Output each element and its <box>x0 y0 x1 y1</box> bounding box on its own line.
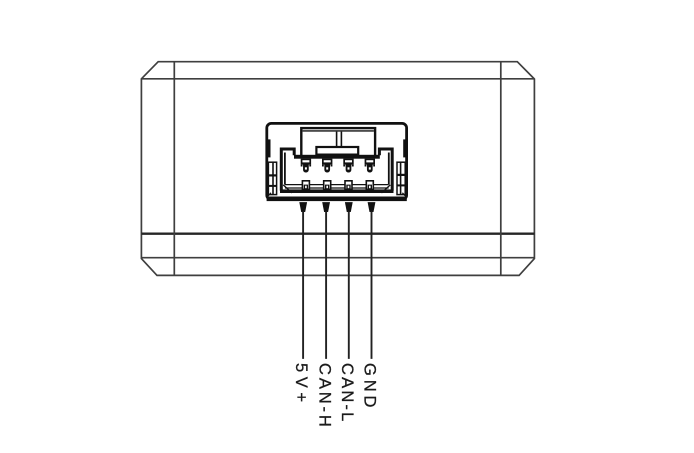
shroud bottom band <box>280 189 394 193</box>
latch center divider lines <box>337 132 342 148</box>
connector latch tab <box>301 128 375 157</box>
body lower thin panel line <box>141 257 534 259</box>
shroud bottom right corner diagonal <box>382 185 391 193</box>
connector shell bottom inner line <box>267 197 407 202</box>
body left vertical line <box>173 62 175 276</box>
pin 3 solder arrow <box>345 202 353 212</box>
pin 1 contact tooth <box>301 159 311 173</box>
pin 4 contact tooth <box>365 159 375 173</box>
shroud floor second line <box>285 187 389 189</box>
shroud right wall <box>379 149 392 191</box>
left mounting flange <box>268 162 276 194</box>
connector J1 outer shell <box>267 123 407 199</box>
leader line pin 1 <box>302 212 304 359</box>
svg-text:GND: GND <box>360 363 378 411</box>
body top panel line <box>141 78 534 80</box>
leader line pin 2 <box>325 212 327 359</box>
shroud bottom left corner diagonal <box>283 185 292 193</box>
leader line pin 4 <box>371 212 373 359</box>
svg-text:CAN-L: CAN-L <box>338 363 356 424</box>
right mounting flange <box>397 162 405 194</box>
pin 1 base contact <box>302 181 309 190</box>
shroud right wall inner edge <box>388 153 390 185</box>
svg-text:CAN-H: CAN-H <box>316 363 334 430</box>
connector shell right wall notch <box>403 139 406 157</box>
shroud left wall <box>281 149 294 191</box>
connector deck band <box>294 155 380 159</box>
pin 1 solder arrow <box>299 202 307 212</box>
pin 3 contact tooth <box>343 159 353 173</box>
svg-text:5V+: 5V+ <box>292 363 310 407</box>
shroud cavity floor line <box>285 184 389 186</box>
shell bottom-left corner diagonal <box>267 193 271 197</box>
shroud left wall inner edge <box>284 153 286 185</box>
connector shell left wall notch <box>268 139 271 157</box>
latch tab inner line <box>303 130 374 132</box>
body lower thick panel line <box>141 232 534 234</box>
pin 2 solder arrow <box>322 202 330 212</box>
pin 2 base contact <box>324 181 331 190</box>
connector key bar <box>316 147 358 155</box>
pin 3 base contact <box>345 181 352 190</box>
leader line pin 3 <box>348 212 350 359</box>
pin 4 base contact <box>366 181 373 190</box>
shell bottom-right corner diagonal <box>402 193 406 197</box>
pin 4 solder arrow <box>368 202 376 212</box>
pin 2 contact tooth <box>322 159 332 173</box>
body right vertical line <box>500 62 502 276</box>
device body outline (chamfered box) <box>141 62 534 276</box>
